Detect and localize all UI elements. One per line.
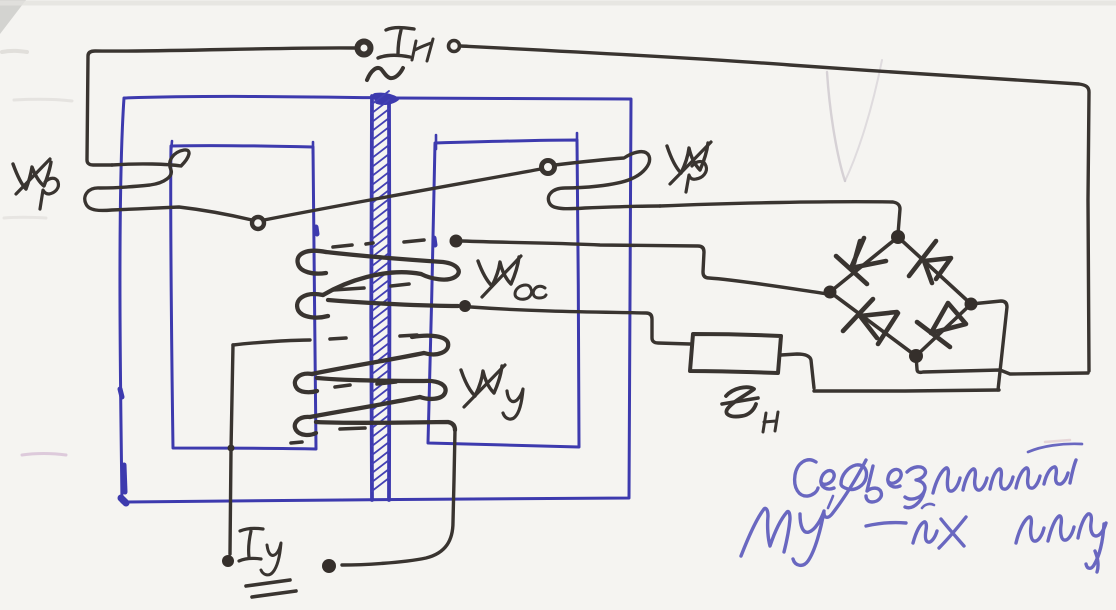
wire right W_p to bridge top vertex bbox=[660, 202, 900, 234]
label I_y bbox=[239, 528, 263, 561]
wire bridge right vertex right and down bbox=[971, 301, 1007, 390]
bottom wire to bridge right vertical bbox=[814, 390, 999, 391]
terminal I_H left bbox=[358, 42, 371, 55]
W_os coil bbox=[298, 251, 326, 274]
diode D3 bottom-left bbox=[843, 299, 898, 344]
ink blobs on core bbox=[121, 498, 126, 503]
right W_p coil bbox=[548, 152, 660, 209]
terminal I_H right bbox=[449, 41, 460, 52]
bridge edge bottom-right bbox=[916, 304, 971, 356]
pencil V mark bbox=[827, 72, 845, 181]
handwriting line 1: Серьезный bbox=[795, 460, 818, 496]
core left window bbox=[171, 146, 316, 449]
diode D1 top-left bbox=[836, 238, 886, 284]
I_y right terminal dot bbox=[322, 559, 336, 573]
wire W_os top to bridge left vertex bbox=[462, 241, 828, 294]
label I_H bbox=[378, 28, 414, 58]
core right window bbox=[428, 140, 579, 447]
core center limb left edge bbox=[369, 96, 374, 500]
core limb hatching bbox=[372, 91, 389, 491]
W_os winding dashes row1 bbox=[333, 240, 424, 247]
bridge edge top-right bbox=[898, 237, 971, 304]
right W_p node circle bbox=[542, 161, 555, 174]
W_y coil bbox=[412, 336, 448, 355]
wire Z_H right to bottom wire bbox=[781, 354, 814, 388]
label W_p left bbox=[13, 162, 51, 189]
label W_os bbox=[478, 257, 519, 286]
left W_p node circle bbox=[252, 217, 264, 229]
W_os terminal dot bottom bbox=[459, 300, 471, 312]
diode D2 top-right bbox=[909, 241, 951, 283]
scan corner smudge bbox=[0, 0, 26, 34]
label Z_H bbox=[726, 387, 756, 416]
core limb top blob bbox=[375, 95, 397, 103]
W_os dashes row2 bbox=[333, 284, 409, 290]
bridge edge bottom-left bbox=[830, 292, 916, 356]
W_y dashes rows bbox=[291, 382, 396, 443]
crossing blob I_y wire bbox=[228, 445, 235, 452]
core center limb right edge bbox=[387, 96, 391, 500]
purple dash left bbox=[22, 454, 66, 456]
wire W_os bottom to Z_H bbox=[471, 307, 690, 344]
AC tilde bbox=[367, 68, 403, 80]
I_y left wire bbox=[230, 345, 233, 554]
W_y entry wire from I_y left bbox=[233, 340, 310, 345]
I_y left terminal dot bbox=[222, 555, 234, 567]
core window corner ticks bbox=[171, 133, 577, 153]
wire bridge bottom vertex to right vertical bbox=[916, 356, 1088, 374]
label W_p right bbox=[667, 143, 708, 173]
wire top right to bridge bottom (right vertical) bbox=[461, 46, 1089, 371]
bridge node top bbox=[891, 230, 905, 244]
wire diagonal left W_p to right W_p bbox=[264, 169, 541, 220]
diode D4 bottom-right bbox=[917, 303, 966, 347]
left W_p coil bbox=[85, 150, 252, 220]
bridge node left bbox=[824, 286, 837, 299]
wire top left from I_H terminal bbox=[87, 48, 355, 165]
W_y dashes row1 bbox=[330, 335, 417, 339]
bridge node bottom bbox=[909, 349, 923, 363]
core outer rectangle bbox=[120, 96, 631, 502]
bridge node right bbox=[965, 298, 978, 311]
W_os terminal dot top bbox=[450, 235, 463, 248]
bridge edge top-left bbox=[830, 237, 898, 292]
handwriting line 2: МУ - их ине bbox=[741, 508, 790, 556]
DC symbol under I_y bbox=[246, 580, 296, 597]
W_y exit wire down to terminal bbox=[342, 430, 455, 565]
Z_H resistor bbox=[690, 334, 781, 373]
label W_y bbox=[461, 366, 502, 396]
